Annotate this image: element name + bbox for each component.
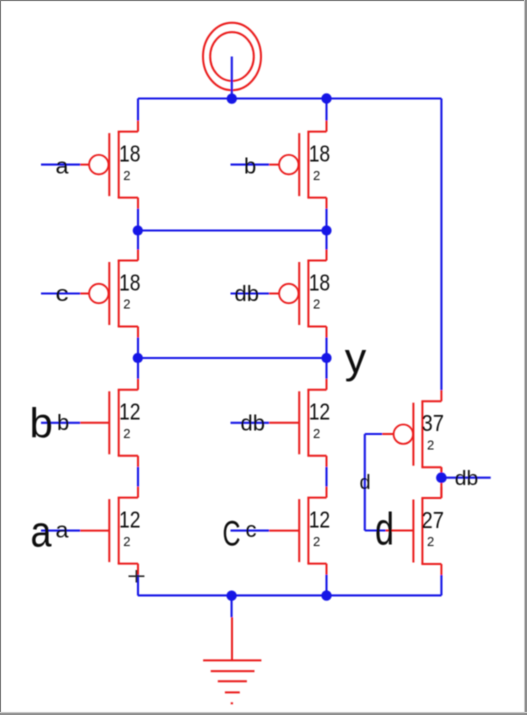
svg-text:12: 12 <box>309 506 331 532</box>
svg-text:c: c <box>246 517 257 542</box>
svg-text:2: 2 <box>123 426 130 441</box>
svg-text:a: a <box>31 508 52 557</box>
svg-text:2: 2 <box>123 297 130 312</box>
svg-text:2: 2 <box>313 534 320 549</box>
svg-text:d: d <box>360 472 371 494</box>
svg-text:b: b <box>57 410 69 435</box>
svg-text:18: 18 <box>309 140 331 166</box>
svg-text:18: 18 <box>119 140 141 166</box>
svg-text:2: 2 <box>123 168 130 183</box>
svg-text:2: 2 <box>313 168 320 183</box>
svg-text:12: 12 <box>309 399 331 425</box>
svg-text:2: 2 <box>123 534 130 549</box>
svg-text:2: 2 <box>427 437 434 452</box>
svg-text:37: 37 <box>422 410 445 436</box>
svg-text:18: 18 <box>309 269 331 295</box>
svg-text:18: 18 <box>119 269 141 295</box>
svg-text:db: db <box>455 467 479 490</box>
svg-text:a: a <box>56 153 70 178</box>
svg-text:12: 12 <box>119 399 141 425</box>
svg-text:b: b <box>244 154 256 179</box>
svg-text:b: b <box>30 400 53 447</box>
svg-text:12: 12 <box>119 506 141 532</box>
svg-text:27: 27 <box>422 507 445 533</box>
svg-text:y: y <box>345 334 367 382</box>
svg-text:db: db <box>241 411 265 436</box>
svg-text:d: d <box>375 504 394 555</box>
svg-text:db: db <box>235 281 259 306</box>
svg-text:C: C <box>223 515 241 554</box>
svg-text:c: c <box>56 281 69 306</box>
svg-text:2: 2 <box>427 534 434 549</box>
svg-text:a: a <box>56 518 70 543</box>
svg-text:2: 2 <box>313 297 320 312</box>
svg-text:2: 2 <box>313 426 320 441</box>
